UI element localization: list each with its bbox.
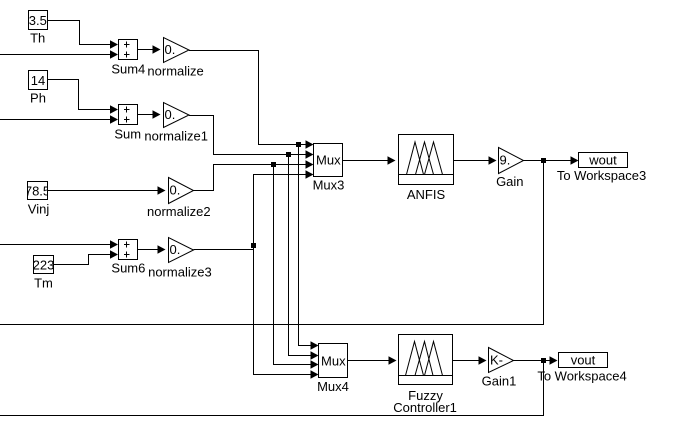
svg-text:Sum6: Sum6 <box>111 261 145 276</box>
constant Vinj value 78.5 <box>25 182 50 217</box>
wire ANFIS to Gain <box>454 160 490 162</box>
wire Mux3 to ANFIS <box>343 160 389 162</box>
svg-text:ANFIS: ANFIS <box>407 187 446 202</box>
svg-text:9.: 9. <box>500 152 511 167</box>
svg-text:normalize2: normalize2 <box>147 204 211 219</box>
svg-text:Mux: Mux <box>316 152 341 167</box>
svg-text:0.: 0. <box>170 242 181 257</box>
wire Mux4 to Fuzzy Controller1 <box>348 360 390 362</box>
wire branch down to Mux4 input1 <box>299 145 312 346</box>
svg-text:Sum4: Sum4 <box>111 62 145 77</box>
wire Sum to normalize1 <box>138 114 154 116</box>
wire Sum4 to normalize <box>138 49 154 51</box>
svg-text:0.: 0. <box>170 182 181 197</box>
wire feedback from Gain1 to left edge <box>0 361 544 416</box>
fuzzy block Fuzzy Controller1 <box>393 335 457 415</box>
svg-text:Mux: Mux <box>321 353 346 368</box>
svg-text:223: 223 <box>33 257 55 272</box>
constant Th value 3.5 <box>29 11 48 46</box>
constant Tm value 223 <box>33 256 55 291</box>
wire normalize2 to Mux3 input3 <box>194 165 307 191</box>
svg-text:Vinj: Vinj <box>28 201 50 216</box>
svg-text:0.: 0. <box>165 42 176 57</box>
svg-text:To Workspace4: To Workspace4 <box>537 369 626 384</box>
to-workspace block wout <box>557 152 646 183</box>
svg-text:Mux3: Mux3 <box>313 177 345 192</box>
svg-text:Sum: Sum <box>114 127 141 142</box>
svg-text:14: 14 <box>31 73 45 88</box>
wire normalize3 up to Mux3 input4 <box>254 175 307 250</box>
wire Fuzzy Controller1 to Gain1 <box>453 360 480 362</box>
wire branch down to Mux4 input2 <box>289 155 312 356</box>
wire left input to Sum4 input2 <box>0 54 111 56</box>
wire branch down to Mux4 input3 <box>274 165 312 365</box>
svg-text:K-: K- <box>490 353 503 368</box>
svg-text:Ph: Ph <box>30 91 46 106</box>
svg-text:Mux4: Mux4 <box>317 379 349 394</box>
sum block Sum <box>114 105 141 142</box>
junction node on Mux3 input3 <box>271 162 276 167</box>
sum block Sum6 <box>111 240 145 276</box>
svg-text:To Workspace3: To Workspace3 <box>557 168 646 183</box>
mux block Mux3 <box>313 144 345 193</box>
svg-text:normalize1: normalize1 <box>144 129 208 144</box>
wire normalize3 to junction <box>194 249 254 251</box>
junction node on normalize3 branch <box>251 243 256 248</box>
svg-text:Gain: Gain <box>496 174 523 189</box>
wire normalize to Mux3 input1 <box>189 51 307 145</box>
svg-text:vout: vout <box>571 352 596 367</box>
svg-text:Controller1: Controller1 <box>393 400 457 415</box>
mux block Mux4 <box>317 344 349 394</box>
constant Ph value 14 <box>29 71 48 106</box>
svg-text:78.5: 78.5 <box>25 183 50 198</box>
svg-text:wout: wout <box>588 152 617 167</box>
gain normalize3 <box>148 238 212 280</box>
wire Gain to wout <box>524 160 572 162</box>
svg-text:Gain1: Gain1 <box>482 373 517 388</box>
to-workspace block vout <box>537 352 626 383</box>
gain normalize1 <box>144 103 208 144</box>
gain normalize2 <box>147 178 211 219</box>
svg-text:3.5: 3.5 <box>29 13 47 28</box>
sum block Sum4 <box>111 40 145 77</box>
svg-text:Tm: Tm <box>34 275 53 290</box>
wire Vinj to normalize2 <box>48 190 159 192</box>
gain Gain <box>496 148 523 189</box>
wire left input to Sum input2 <box>0 119 111 121</box>
wire Gain1 to vout <box>514 360 551 362</box>
wire normalize3 down to Mux4 input4 <box>254 250 312 375</box>
junction node on Gain output <box>541 158 546 163</box>
wire Tm to Sum6 input2 <box>54 255 112 265</box>
wire Ph to Sum input1 <box>48 80 112 110</box>
svg-text:Th: Th <box>30 31 45 46</box>
junction node on Gain1 output <box>541 358 546 363</box>
junction node on Mux3 input1 <box>296 142 301 147</box>
gain Gain1 <box>482 348 517 389</box>
wire feedback from Gain to left edge <box>0 161 544 325</box>
fuzzy block ANFIS <box>399 135 454 203</box>
svg-text:normalize: normalize <box>147 64 203 79</box>
junction node on Mux3 input2 <box>286 152 291 157</box>
svg-text:0.: 0. <box>165 107 176 122</box>
svg-text:normalize3: normalize3 <box>148 264 212 279</box>
wire Th to Sum4 input1 <box>48 21 112 45</box>
wire normalize1 to Mux3 input2 <box>189 116 307 155</box>
wire left input to Sum6 input1 <box>0 244 111 246</box>
gain normalize <box>147 38 203 79</box>
wire Sum6 to normalize3 <box>138 249 159 251</box>
